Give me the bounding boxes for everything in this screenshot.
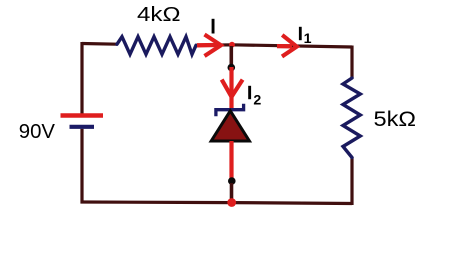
label I2	[248, 86, 251, 99]
wire middle dark lower segment	[230, 183, 234, 201]
arrow I1	[277, 35, 297, 57]
label I1	[299, 27, 302, 40]
wire middle red upper (with I2 arrow)	[229, 67, 233, 111]
arrow I2 chevron	[222, 80, 243, 97]
node junction dot (black, upper middle)	[228, 64, 236, 72]
node A junction dot (red, top)	[229, 42, 235, 48]
svg-text:1: 1	[304, 31, 312, 47]
zener diode D1 cathode bar	[216, 104, 244, 116]
node B junction dot (red, bottom)	[227, 198, 236, 207]
svg-text:90V: 90V	[19, 121, 56, 143]
arrow I (current into node)	[197, 35, 221, 57]
svg-text:4kΩ: 4kΩ	[137, 3, 181, 26]
wire right lower	[350, 158, 353, 206]
zener diode D1 triangle	[211, 111, 249, 141]
battery V1 90V	[61, 116, 104, 127]
battery short plate	[70, 125, 95, 129]
wire bottom	[81, 202, 353, 204]
resistor R2 5kΩ	[343, 78, 360, 158]
node junction dot (black, lower middle)	[228, 177, 236, 185]
wire left lower	[80, 129, 83, 204]
wire middle dark segment	[230, 46, 234, 65]
wire top right of resistor	[196, 45, 352, 47]
wire left	[80, 42, 83, 114]
battery long plate	[61, 113, 104, 117]
resistor R1 4kΩ	[117, 37, 196, 55]
label I	[212, 19, 215, 34]
svg-text:5kΩ: 5kΩ	[374, 108, 417, 131]
wire middle red lower	[229, 141, 233, 180]
wire top	[82, 42, 117, 46]
svg-text:2: 2	[253, 92, 261, 108]
wire right upper	[350, 46, 353, 79]
